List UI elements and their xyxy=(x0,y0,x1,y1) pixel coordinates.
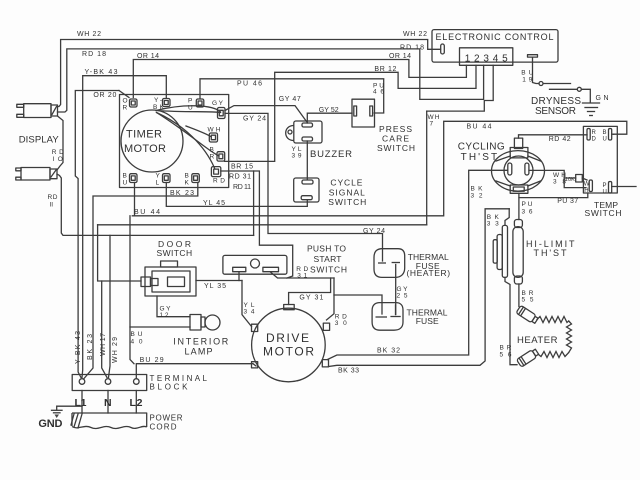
svg-text:36: 36 xyxy=(522,209,533,216)
timer terminal BK xyxy=(185,173,200,187)
svg-text:GY 52: GY 52 xyxy=(319,107,339,114)
timer terminal PU xyxy=(188,98,204,112)
svg-text:B: B xyxy=(123,173,127,180)
svg-text:INTERIOR: INTERIOR xyxy=(173,337,229,347)
svg-text:46: 46 xyxy=(373,89,384,96)
svg-text:39: 39 xyxy=(292,153,302,160)
timer terminal Y-BK xyxy=(153,97,170,111)
timer terminal YL xyxy=(156,173,171,187)
wire PU37 xyxy=(519,193,588,205)
svg-text:GY 24: GY 24 xyxy=(243,116,266,123)
wire Y-BK43 xyxy=(82,69,166,378)
door switch xyxy=(141,239,196,296)
interior lamp xyxy=(173,315,229,357)
svg-text:BU: BU xyxy=(521,70,533,77)
svg-text:BR 12: BR 12 xyxy=(374,66,396,73)
svg-text:BU 29: BU 29 xyxy=(140,357,164,364)
wire RD31 timer to push start xyxy=(221,171,309,280)
wire PU36 cycling to hi-limit xyxy=(519,193,533,219)
wire WH7 press care to junction xyxy=(427,111,440,225)
wire door feed xyxy=(98,224,427,226)
timer terminal BU xyxy=(123,173,138,187)
svg-text:WH 29: WH 29 xyxy=(112,337,119,363)
svg-text:U: U xyxy=(603,137,607,143)
wire YL34 to motor xyxy=(242,281,255,327)
svg-text:N: N xyxy=(104,397,112,409)
svg-text:LAMP: LAMP xyxy=(185,347,213,357)
wire WH29 xyxy=(109,235,111,377)
heater plug lower xyxy=(517,348,540,367)
buzzer xyxy=(286,121,352,160)
svg-text:O: O xyxy=(123,98,128,105)
svg-text:CYCLE: CYCLE xyxy=(330,178,362,188)
svg-text:R: R xyxy=(210,154,215,161)
svg-text:TH'ST: TH'ST xyxy=(534,248,568,258)
svg-text:BLOCK: BLOCK xyxy=(150,383,189,392)
wire OR14 xyxy=(133,53,466,98)
svg-text:19: 19 xyxy=(522,77,532,84)
resistor 10K xyxy=(564,175,587,184)
svg-text:CYCLING: CYCLING xyxy=(458,142,505,153)
svg-text:Y-BK 43: Y-BK 43 xyxy=(75,331,82,364)
svg-text:SENSOR: SENSOR xyxy=(535,106,576,117)
electronic control box xyxy=(432,30,558,63)
node L1 xyxy=(75,391,87,414)
wire BK32 motor to cycling xyxy=(328,170,508,359)
svg-text:40: 40 xyxy=(131,339,143,346)
node N xyxy=(104,391,112,414)
svg-text:OR 20: OR 20 xyxy=(93,92,116,99)
temp switch xyxy=(583,126,636,218)
svg-text:L: L xyxy=(156,180,160,187)
cycling thermostat xyxy=(458,138,545,193)
svg-text:W: W xyxy=(584,182,590,188)
svg-text:10K: 10K xyxy=(565,177,575,183)
svg-text:II: II xyxy=(50,202,54,209)
svg-text:GY: GY xyxy=(212,100,224,107)
svg-text:HEATER: HEATER xyxy=(517,335,558,346)
svg-text:PRESS: PRESS xyxy=(379,124,412,134)
wire RD30 motor to thermal fuse xyxy=(327,278,383,327)
svg-text:WH 22: WH 22 xyxy=(403,31,427,38)
svg-text:YL 45: YL 45 xyxy=(203,200,225,207)
svg-text:PU 46: PU 46 xyxy=(237,81,262,88)
svg-text:YL 35: YL 35 xyxy=(204,283,226,290)
svg-text:GN: GN xyxy=(596,95,609,102)
wire YL45 timer to cycle signal switch xyxy=(166,183,307,207)
svg-text:DISPLAY: DISPLAY xyxy=(19,135,60,146)
svg-text:BK 23: BK 23 xyxy=(170,190,194,197)
svg-text:7: 7 xyxy=(430,121,434,128)
wire RD10 xyxy=(52,116,64,170)
svg-text:IO: IO xyxy=(53,156,63,163)
svg-text:SWITCH: SWITCH xyxy=(377,143,415,153)
svg-text:SWITCH: SWITCH xyxy=(328,197,366,207)
svg-text:TIMER: TIMER xyxy=(126,129,162,141)
svg-text:(HEATER): (HEATER) xyxy=(407,268,451,278)
wire GY52 buzzer to press care xyxy=(307,107,352,123)
svg-text:12: 12 xyxy=(160,312,169,319)
wire GY47 timer to buzzer xyxy=(225,96,307,122)
svg-text:30: 30 xyxy=(335,320,347,327)
svg-text:33: 33 xyxy=(487,221,499,228)
timer motor box xyxy=(120,95,229,188)
display connector upper xyxy=(17,104,58,118)
svg-text:CORD: CORD xyxy=(150,423,177,432)
node L2 xyxy=(130,391,143,414)
svg-text:L2: L2 xyxy=(130,397,143,409)
svg-text:RD: RD xyxy=(52,149,64,156)
svg-text:BUZZER: BUZZER xyxy=(310,149,352,160)
svg-text:GY 24: GY 24 xyxy=(363,228,385,235)
svg-text:OR 14: OR 14 xyxy=(137,53,159,60)
timer terminal OR xyxy=(123,98,138,112)
heater element zigzag xyxy=(517,317,572,358)
svg-text:Y: Y xyxy=(156,173,161,180)
ground GND xyxy=(38,406,82,430)
svg-text:RD: RD xyxy=(48,194,58,201)
wire control pin4 xyxy=(427,65,494,111)
timer terminal RD xyxy=(211,167,225,185)
ground GN xyxy=(583,95,609,116)
svg-text:FUSE: FUSE xyxy=(416,316,439,326)
svg-text:DRIVE: DRIVE xyxy=(266,331,309,345)
cycle signal switch xyxy=(294,178,367,208)
wire OR20 xyxy=(75,91,129,378)
wire YL39 buzzer to cycle signal xyxy=(292,141,308,180)
wire YL35 door to push start xyxy=(196,272,242,291)
wire WH38 cycling to temp switch xyxy=(529,170,586,187)
svg-text:34: 34 xyxy=(244,309,255,316)
timer terminal BR xyxy=(210,147,225,162)
wire GY25 between fuses xyxy=(396,265,408,315)
heater plug upper xyxy=(516,305,539,324)
svg-text:K: K xyxy=(185,180,190,187)
push to start switch xyxy=(223,244,347,275)
rotated wire labels at terminal block xyxy=(75,331,119,364)
wire BU29 L2 to motor xyxy=(136,357,256,379)
svg-text:55: 55 xyxy=(522,297,534,304)
svg-text:P: P xyxy=(188,98,192,105)
svg-text:MOTOR: MOTOR xyxy=(263,345,314,359)
svg-text:BK: BK xyxy=(471,186,484,193)
svg-text:RD 31: RD 31 xyxy=(229,174,251,181)
svg-text:PUSH TO: PUSH TO xyxy=(307,244,346,254)
svg-text:B: B xyxy=(185,173,189,180)
wire WH17 junction to N xyxy=(102,281,107,378)
drive motor xyxy=(252,305,330,382)
svg-text:TH'ST: TH'ST xyxy=(461,152,498,163)
thermal fuse xyxy=(372,303,448,331)
wire BU44 timer to cycling xyxy=(132,121,627,216)
dryness sensor switch BU19 xyxy=(521,55,590,103)
svg-text:BK 32: BK 32 xyxy=(377,348,400,355)
svg-text:L1: L1 xyxy=(75,397,87,409)
svg-text:GND: GND xyxy=(38,418,62,430)
svg-text:B: B xyxy=(210,147,214,154)
svg-text:RD 42: RD 42 xyxy=(549,136,571,143)
wire BK23 timer to L1 xyxy=(84,183,198,379)
svg-text:BR: BR xyxy=(500,345,512,352)
terminal block xyxy=(72,374,207,392)
display connector lower xyxy=(16,168,57,181)
power cord xyxy=(71,413,183,432)
wire RD42 xyxy=(519,135,588,143)
wire RD11 display to junction xyxy=(48,174,254,235)
wire BU40 lamp to L2 xyxy=(130,216,190,364)
svg-text:BK 33: BK 33 xyxy=(338,367,359,374)
svg-text:B: B xyxy=(603,130,607,136)
wire PU46 timer to press care xyxy=(200,79,384,113)
svg-text:SWITCH: SWITCH xyxy=(157,248,193,258)
svg-text:RD 18: RD 18 xyxy=(82,51,106,58)
svg-text:PU 37: PU 37 xyxy=(557,198,578,205)
svg-text:ELECTRONIC CONTROL: ELECTRONIC CONTROL xyxy=(436,32,554,42)
thermal fuse heater xyxy=(374,249,450,278)
svg-text:START: START xyxy=(314,254,342,264)
svg-text:56: 56 xyxy=(500,352,512,359)
timer terminal GY xyxy=(212,100,225,119)
svg-text:BU 44: BU 44 xyxy=(134,209,160,216)
svg-text:R: R xyxy=(592,130,597,136)
press care switch xyxy=(352,99,415,153)
svg-text:BU 44: BU 44 xyxy=(467,123,492,130)
svg-text:BK: BK xyxy=(153,104,165,111)
svg-text:SIGNAL: SIGNAL xyxy=(329,187,365,197)
svg-text:SWITCH: SWITCH xyxy=(585,208,622,218)
svg-text:RD: RD xyxy=(213,178,225,185)
wire BK33 motor to hi-limit xyxy=(329,209,510,374)
svg-text:D: D xyxy=(592,137,597,143)
wire BR55 xyxy=(519,284,534,307)
svg-text:CARE: CARE xyxy=(382,134,409,144)
svg-text:1 2 3 4 5: 1 2 3 4 5 xyxy=(465,54,508,65)
wire BR12 BR15 timer to control xyxy=(225,65,476,170)
control connector 12345 xyxy=(460,48,513,66)
svg-text:WH 22: WH 22 xyxy=(77,31,101,38)
svg-text:BU: BU xyxy=(131,331,143,338)
hi-limit thermostat xyxy=(493,209,575,365)
svg-text:25: 25 xyxy=(397,293,408,300)
svg-text:MOTOR: MOTOR xyxy=(124,143,166,155)
svg-text:OR 14: OR 14 xyxy=(389,53,411,60)
wire BR56 xyxy=(500,345,512,359)
svg-text:SWITCH: SWITCH xyxy=(310,265,347,275)
svg-text:U: U xyxy=(188,105,193,112)
wire RD18 xyxy=(58,45,484,113)
wire GY12 door to lamp xyxy=(157,296,190,319)
svg-text:P: P xyxy=(603,183,607,189)
svg-text:GY 47: GY 47 xyxy=(279,96,301,103)
svg-text:R: R xyxy=(123,105,128,112)
timer terminal WH xyxy=(208,127,221,143)
svg-text:WH 17: WH 17 xyxy=(100,333,107,356)
svg-text:Y-: Y- xyxy=(154,97,162,104)
svg-text:BR 15: BR 15 xyxy=(231,163,253,170)
svg-text:U: U xyxy=(603,190,607,196)
svg-text:32: 32 xyxy=(471,193,483,200)
svg-text:U: U xyxy=(123,180,128,187)
svg-text:GY 31: GY 31 xyxy=(299,295,323,302)
svg-text:RD 18: RD 18 xyxy=(400,45,424,52)
wire GY31 push start to motor top xyxy=(271,272,335,305)
svg-text:Y-BK 43: Y-BK 43 xyxy=(85,69,118,76)
svg-text:RD 11: RD 11 xyxy=(233,184,251,191)
wire WH22 xyxy=(58,31,441,107)
svg-text:BK 23: BK 23 xyxy=(87,334,94,360)
wire GY24 timer to thermal fuse xyxy=(225,113,385,261)
svg-text:PU: PU xyxy=(522,201,533,208)
svg-text:POWER: POWER xyxy=(150,414,183,423)
